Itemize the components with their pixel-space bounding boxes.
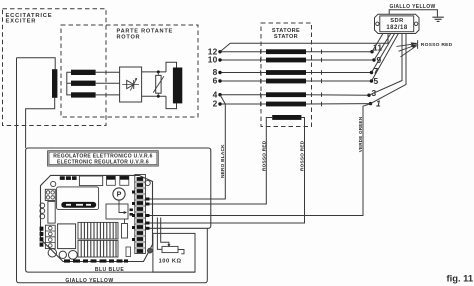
wire armature phase c to rectifier xyxy=(96,94,120,96)
potentiometer feed wire 1 xyxy=(157,218,162,250)
stator winding bar phase W1 xyxy=(266,92,306,97)
wire row 10 xyxy=(220,59,374,61)
wire row 2 xyxy=(220,103,371,105)
svg-text:NERO BLACK: NERO BLACK xyxy=(220,144,225,178)
wire SDR to terminal 9 xyxy=(374,34,391,61)
terminal node 6 xyxy=(218,79,221,82)
trimmer P xyxy=(106,188,128,219)
stator winding bar phase U2 xyxy=(266,58,306,63)
rosso red wire 2 (aux winding right lead) xyxy=(146,118,305,224)
PCB mount hole bottom-right xyxy=(148,248,153,253)
stator winding bar phase V1 xyxy=(266,70,306,75)
rotor dashed enclosure box xyxy=(61,25,198,117)
wire SDR to terminal 7 xyxy=(372,34,395,73)
terminal strip tabs xyxy=(146,198,150,230)
wire rectifier + to field xyxy=(142,71,166,73)
terminal strip left nubs xyxy=(132,191,135,242)
main field winding L2 wire loop xyxy=(166,62,177,108)
terminal node 11 xyxy=(370,50,373,53)
transformer T1 xyxy=(58,224,76,249)
stator winding bar phase W2 xyxy=(266,102,306,107)
potentiometer 100 K body xyxy=(162,246,184,253)
svg-text:P: P xyxy=(117,190,122,199)
stator auxiliary winding bar xyxy=(272,115,301,120)
potentiometer feed wire 2 (wiper) xyxy=(161,218,169,245)
PCB mount hole bottom-left xyxy=(48,249,56,257)
stator winding bar phase U1 xyxy=(266,49,306,54)
terminal node 8 xyxy=(218,71,221,74)
wire SDR to terminal 12 xyxy=(220,34,388,52)
terminal node 4 xyxy=(218,93,221,96)
4-hole connector J1 xyxy=(45,189,55,200)
svg-text:10: 10 xyxy=(208,55,218,65)
heatsink block 1 xyxy=(78,222,118,239)
terminal node 1 xyxy=(369,102,372,105)
exciter armature winding bar c xyxy=(71,92,96,97)
PCB mount hole top-left xyxy=(51,181,56,186)
wire row 6 xyxy=(220,80,372,82)
svg-text:6: 6 xyxy=(213,76,218,86)
svg-text:SDR: SDR xyxy=(390,18,404,24)
wire from exciter field to regulator box xyxy=(26,98,55,148)
SDR suppressor box SDR 182/18 xyxy=(375,14,420,33)
svg-text:ROSSO RED: ROSSO RED xyxy=(421,42,453,48)
vertical component box xyxy=(48,201,55,223)
svg-text:GIALLO YELLOW: GIALLO YELLOW xyxy=(65,278,113,284)
lead-out ticks left xyxy=(260,50,262,107)
terminal node 5 xyxy=(370,79,373,82)
capacitor C1 xyxy=(107,176,116,185)
svg-text:EXCITER: EXCITER xyxy=(6,19,37,25)
regulator title box xyxy=(48,151,159,166)
solder pads right of P box xyxy=(130,209,133,216)
bottom edge pads xyxy=(64,259,128,262)
small component box xyxy=(126,247,131,257)
wire SDR to terminal 11 xyxy=(372,34,383,52)
stator dashed enclosure box xyxy=(261,23,312,127)
top edge pads xyxy=(60,176,77,180)
junction node bottom of varistor xyxy=(157,95,160,98)
wire SDR to terminal 5 xyxy=(372,34,399,82)
svg-text:ROSSO RED: ROSSO RED xyxy=(261,140,266,171)
exciter armature winding bar a xyxy=(71,70,96,75)
svg-text:182/18: 182/18 xyxy=(386,25,408,31)
svg-text:STATOR: STATOR xyxy=(274,34,298,40)
relay K1 xyxy=(79,176,102,186)
nero black wire (terminal 4/2 down to regulator) xyxy=(146,95,225,199)
svg-text:VERDE GREEN: VERDE GREEN xyxy=(358,116,363,152)
svg-text:BLU BLUE: BLU BLUE xyxy=(95,267,125,273)
exciter field winding L1 (stator of exciter) wire loop xyxy=(17,58,56,70)
wire armature phase b to rectifier xyxy=(96,82,120,84)
verde green wire (terminal 1 down to regulator) xyxy=(146,104,371,216)
wire SDR to terminal 1 xyxy=(371,34,407,104)
regulator outer enclosure wire box xyxy=(26,148,211,272)
wire row 12 xyxy=(220,51,372,53)
rotating rectifier diode box xyxy=(120,67,142,102)
terminal node 3 xyxy=(367,94,370,97)
giallo yellow label (bottom) xyxy=(65,278,113,284)
capacitor C3 xyxy=(122,219,128,238)
svg-text:fig. 11: fig. 11 xyxy=(447,272,474,283)
stator winding bar phase V2 xyxy=(266,79,306,84)
terminal node 2 xyxy=(218,102,221,105)
wire row 8 xyxy=(220,72,372,74)
terminal node 7 xyxy=(370,71,373,74)
varistor RV (surge suppressor) xyxy=(153,72,164,96)
wire row 4 xyxy=(220,94,369,97)
exciter armature winding bar b xyxy=(71,81,96,86)
svg-text:ELECTRONIC REGULATOR U.V.R.6: ELECTRONIC REGULATOR U.V.R.6 xyxy=(57,160,149,166)
heatsink block 2 xyxy=(78,240,118,257)
earth ground symbol xyxy=(432,17,443,21)
wire SDR to earth xyxy=(389,10,437,17)
potentiometer enclosure box xyxy=(153,233,195,272)
svg-text:100 KΩ: 100 KΩ xyxy=(159,258,182,264)
exciter field winding core bar xyxy=(52,69,57,98)
junction node top of varistor xyxy=(157,70,160,73)
main field winding core bar xyxy=(173,68,182,104)
IC module U1 xyxy=(57,187,99,210)
wire SDR to terminal 3 xyxy=(369,34,402,96)
wire rectifier - to field xyxy=(142,95,166,97)
terminal node 9 xyxy=(372,58,375,61)
bottom circles xyxy=(59,251,77,260)
terminal node 10 xyxy=(218,58,221,61)
left connector strip xyxy=(45,225,55,248)
rosso red wire 1 (aux winding left lead) xyxy=(146,118,272,205)
exciter dashed enclosure box xyxy=(3,9,107,126)
left edge pads xyxy=(40,227,44,247)
terminal node 12 xyxy=(218,50,221,53)
left edge hole circles xyxy=(40,203,45,219)
rosso red callout annotation xyxy=(397,40,453,57)
svg-text:ROTOR: ROTOR xyxy=(117,34,141,40)
PCB mount hole top-right xyxy=(145,180,150,185)
lead-out ticks right xyxy=(321,50,323,107)
svg-text:2: 2 xyxy=(213,99,218,109)
blu blue label xyxy=(95,267,125,273)
regulator PCB outline xyxy=(41,175,153,261)
wire armature phase a to rectifier xyxy=(96,71,120,73)
armature star-point wire xyxy=(67,72,71,95)
svg-text:ROSSO RED: ROSSO RED xyxy=(300,140,305,171)
svg-text:5: 5 xyxy=(374,76,379,86)
giallo yellow wire (left long run to bottom) xyxy=(17,58,208,283)
terminal strip TB1 xyxy=(135,175,146,254)
capacitor C2 xyxy=(120,176,129,185)
